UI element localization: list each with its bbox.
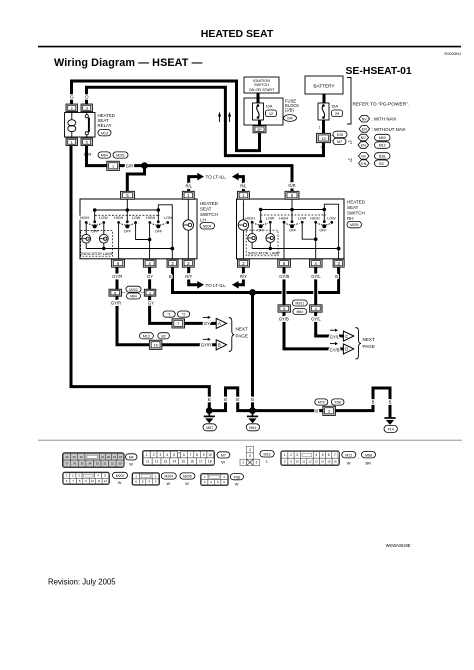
connector label M4: [126, 454, 138, 467]
svg-text:11: 11: [97, 479, 100, 483]
svg-text:HIGH: HIGH: [80, 216, 90, 220]
RH feed-to-pin3 loop: [324, 204, 338, 248]
svg-text:M12: M12: [379, 144, 386, 148]
RH pin 6 (bottom): [278, 259, 291, 267]
brace next page A/B: [229, 318, 248, 352]
junction node ground 2: [249, 407, 256, 414]
svg-text:14: 14: [173, 459, 177, 463]
svg-text:*2: *2: [348, 158, 353, 163]
wire color label B on F14 right leg: [389, 400, 392, 405]
svg-text:A: A: [218, 321, 221, 326]
svg-text:NV: NV: [361, 155, 367, 159]
off-page arrow B: [216, 340, 226, 350]
svg-text:B: B: [208, 397, 211, 402]
svg-text:REFER TO “PG-POWER”.: REFER TO “PG-POWER”.: [353, 102, 410, 108]
svg-text:BATTERY: BATTERY: [313, 83, 335, 88]
LH indicator lamp 2: [99, 224, 108, 250]
fuse 15A: [318, 103, 343, 120]
wire color label GY/L before arrow C: [330, 335, 340, 340]
svg-text:22: 22: [80, 455, 84, 459]
svg-text:W: W: [235, 482, 239, 487]
direction arrow above GY: [203, 316, 211, 319]
svg-text:GY/B: GY/B: [279, 274, 289, 279]
svg-text:INDICATOR LAMP: INDICATOR LAMP: [248, 252, 280, 256]
svg-text:10: 10: [91, 479, 95, 483]
svg-text:NEXT: NEXT: [363, 337, 375, 342]
svg-text:W: W: [347, 461, 351, 466]
wire color label GY/L below connector 4: [311, 317, 321, 322]
svg-text:14: 14: [321, 460, 325, 464]
LH indicator lamp dashed box: [81, 231, 114, 257]
svg-text:13: 13: [315, 460, 319, 464]
inline connector 7: [172, 319, 185, 328]
svg-text:2P: 2P: [257, 128, 262, 132]
svg-text:M7: M7: [337, 140, 342, 144]
RH internal feed bus: [259, 199, 326, 211]
svg-text:: WITH NAVI: : WITH NAVI: [372, 117, 397, 122]
svg-text:*1: *1: [348, 140, 353, 145]
svg-text:NV: NV: [362, 117, 368, 121]
svg-text:EN: EN: [361, 162, 366, 166]
svg-text:O: O: [85, 95, 89, 100]
legend *1: [348, 134, 390, 148]
svg-text:LH: LH: [200, 217, 206, 222]
svg-text:29: 29: [335, 111, 339, 116]
svg-text:B: B: [251, 397, 254, 402]
connector detail M202: [63, 472, 110, 484]
inline connector 1 (M64-M201): [98, 152, 128, 171]
wire GY/R from LH pin6 down to connector 16: [117, 267, 216, 345]
svg-text:ON OR START: ON OR START: [249, 88, 275, 92]
LH switch section 3: [146, 210, 173, 234]
heated seat switch LH box: [80, 199, 219, 259]
svg-text::: :: [371, 136, 372, 140]
svg-text:LOW: LOW: [164, 216, 173, 220]
svg-text:EN: EN: [362, 128, 367, 132]
svg-text:12: 12: [269, 111, 273, 116]
arrow up on G wire: [228, 112, 231, 122]
svg-text:3: 3: [249, 448, 251, 452]
svg-text:INDICATOR LAMP: INDICATOR LAMP: [81, 252, 113, 256]
svg-text:*1: *1: [167, 313, 170, 317]
svg-text:M201: M201: [116, 154, 125, 158]
svg-text:BR: BR: [366, 461, 372, 466]
svg-text:NV: NV: [361, 136, 367, 140]
LH pin 6 (bottom): [112, 259, 125, 267]
svg-text:R/Y: R/Y: [185, 274, 192, 279]
svg-text:B: B: [224, 397, 227, 402]
svg-text:23: 23: [73, 455, 77, 459]
svg-text:B: B: [169, 274, 172, 279]
svg-text:D: D: [345, 347, 348, 352]
svg-text:GY/R: GY/R: [111, 301, 121, 306]
svg-text:PAGE: PAGE: [236, 334, 248, 339]
svg-text:M64: M64: [130, 295, 137, 299]
LH pin 5 (top): [121, 191, 135, 199]
wire battery to fuse: [323, 94, 326, 104]
wire GY from LH pin4 down to connector 7: [150, 267, 217, 323]
svg-text:12: 12: [155, 459, 159, 463]
heated seat relay M13: [65, 104, 115, 146]
svg-text:B2: B2: [379, 162, 383, 166]
svg-text:2: 2: [153, 453, 155, 457]
wire color label B on relay ground leg: [208, 397, 211, 402]
wire G/R junction to RH switch pin 5: [145, 166, 293, 192]
connector ovals M202 / M64: [122, 286, 145, 299]
svg-text:W: W: [129, 461, 133, 466]
svg-text:M12: M12: [143, 334, 150, 338]
junction node ground 1: [206, 407, 213, 414]
svg-text:HIGH: HIGH: [114, 216, 124, 220]
LH pin 3 (bottom): [167, 259, 178, 267]
node G (ignition feed): [258, 137, 262, 142]
inline connector 16: [149, 340, 162, 349]
wire B from LH pin3 to ground rail: [173, 267, 252, 292]
svg-text:WKWA0619E: WKWA0619E: [386, 543, 411, 548]
RH pin 2 (bottom): [237, 259, 249, 267]
wire B rail to RH pin3 with hops: [254, 267, 338, 292]
LH mechanical link (dashed): [95, 214, 160, 216]
heated seat switch RH box: [237, 199, 366, 259]
svg-text:SWITCH: SWITCH: [347, 211, 365, 216]
wire color label B on bridge left leg: [224, 397, 227, 402]
RH pin 1 (top): [237, 191, 249, 199]
svg-text:RH: RH: [347, 216, 354, 221]
wire color label R/L above LH pin 1: [186, 184, 193, 189]
label TO LT-ILL top: [206, 175, 227, 180]
svg-text:*2: *2: [182, 313, 185, 317]
arrow up on O wire: [218, 112, 221, 122]
wire color label GY/R below LH pin 6: [112, 274, 122, 279]
svg-text:9: 9: [203, 453, 205, 457]
connector detail M4 (fuse block): [63, 453, 125, 468]
svg-text:B: B: [372, 400, 375, 405]
svg-text:GY/R: GY/R: [201, 342, 211, 347]
separator line above connector strip: [38, 439, 462, 441]
svg-text:M205: M205: [183, 475, 192, 479]
RH wire HIGH2 to pin 6: [283, 224, 285, 260]
svg-text:,: ,: [177, 476, 178, 481]
svg-text:15: 15: [181, 459, 185, 463]
connector detail M12/M68: [281, 451, 340, 466]
connector labels M204 , M205: [161, 473, 195, 486]
direction arrow above GY/L: [330, 329, 338, 332]
header rule: [38, 46, 461, 48]
wire color label G/R above RH pin 5: [288, 183, 295, 188]
svg-text:W: W: [118, 480, 122, 485]
wire R/L from RH pin1 to LT-ILL arrow: [232, 173, 244, 192]
svg-text:GY: GY: [148, 301, 154, 306]
brace next page C/D: [356, 328, 375, 360]
wire GY/B from RH pin6 down to arrow D: [284, 267, 344, 349]
LH wire LOW2+HIGH3 to pin 4: [136, 224, 152, 259]
svg-text:OFF: OFF: [155, 230, 163, 234]
label TO LT-ILL bottom: [206, 283, 227, 288]
svg-text:37: 37: [66, 461, 70, 465]
wire R/Y from RH pin2 to LT-ILL arrow bottom: [232, 267, 244, 288]
connector ovals M201 / M64: [292, 300, 307, 315]
svg-text:35: 35: [81, 461, 85, 465]
svg-text:M204: M204: [165, 475, 174, 479]
svg-text:LOW: LOW: [266, 216, 275, 220]
svg-text:15A: 15A: [331, 104, 338, 109]
svg-text:M64: M64: [296, 310, 303, 314]
svg-text:B: B: [335, 274, 338, 279]
svg-text:16: 16: [190, 459, 194, 463]
direction arrow above GY/B: [330, 342, 338, 345]
svg-text:E0003NJ: E0003NJ: [445, 51, 461, 56]
svg-text:32: 32: [103, 461, 107, 465]
svg-text:M202: M202: [116, 474, 125, 478]
direction arrow above GY/R: [203, 338, 211, 341]
svg-text:1: 1: [242, 461, 244, 465]
svg-text:OFF: OFF: [91, 230, 99, 234]
svg-text:NEXT: NEXT: [236, 327, 248, 332]
svg-text:24: 24: [65, 455, 69, 459]
junction node on G/R wire: [141, 162, 148, 169]
wire R/Y from LH pin2 to LT-ILL arrow bottom: [189, 267, 204, 288]
svg-text:LOW: LOW: [132, 216, 141, 220]
ground symbol M61: [246, 411, 259, 431]
svg-text:18: 18: [208, 459, 212, 463]
svg-text:13: 13: [164, 459, 168, 463]
svg-text:16: 16: [153, 343, 158, 348]
svg-text:G/R: G/R: [288, 183, 295, 188]
svg-text:3: 3: [296, 453, 298, 457]
svg-text:SEAT: SEAT: [347, 205, 359, 210]
svg-text:B38: B38: [379, 155, 385, 159]
svg-text:7: 7: [334, 453, 336, 457]
svg-text:12: 12: [308, 460, 312, 464]
svg-text:7: 7: [190, 453, 192, 457]
connector detail M7: [143, 451, 215, 466]
svg-text:30: 30: [118, 461, 122, 465]
svg-text:SWITCH: SWITCH: [254, 83, 269, 87]
svg-text:W: W: [185, 481, 189, 486]
node B below relay pin 1: [70, 152, 73, 157]
RH pin 5 (top): [285, 191, 299, 199]
wire R/L from LH pin1 to LT-ILL arrow: [189, 173, 204, 192]
off-page arrow C: [343, 331, 353, 341]
svg-text:M13: M13: [264, 452, 271, 456]
svg-text:10: 10: [296, 460, 300, 464]
wire color label R/Y below LH pin 2: [185, 274, 192, 279]
svg-text:M13: M13: [101, 131, 108, 135]
svg-text:GY/L: GY/L: [330, 335, 340, 340]
svg-text:3: 3: [160, 453, 162, 457]
svg-text:HIGH: HIGH: [279, 216, 289, 220]
section title: [54, 51, 461, 69]
svg-text:R/L: R/L: [240, 184, 247, 189]
wire GY/L from RH pin4 down to arrow C: [316, 267, 344, 336]
svg-text:4: 4: [166, 453, 168, 457]
wire G : 2P down, left, up to relay pin 2: [72, 81, 260, 151]
svg-text:HIGH: HIGH: [310, 216, 320, 220]
RH lamp ground bus to pin 3: [252, 247, 340, 260]
wire color label B below RH pin 3: [335, 274, 338, 279]
svg-text::: :: [371, 144, 372, 148]
svg-text:18: 18: [119, 455, 123, 459]
svg-text:: WITHOUT NAVI: : WITHOUT NAVI: [372, 127, 406, 132]
svg-text:1: 1: [284, 453, 286, 457]
RH switch section 2: [279, 210, 307, 233]
fuse block (J/B) box: [244, 98, 299, 125]
svg-text:HIGH: HIGH: [245, 216, 255, 220]
wire G/R junction to LH switch pin 5: [127, 166, 144, 192]
wire ignition to fuse block: [257, 93, 260, 104]
inline connector 2 (M202-M64): [144, 289, 156, 296]
svg-text:OFF: OFF: [124, 230, 132, 234]
svg-text:5: 5: [283, 307, 285, 311]
svg-text:(J/B): (J/B): [285, 108, 294, 113]
wire B to connector 2 (M70-F58): [253, 409, 323, 412]
fuse 10A: [253, 103, 277, 120]
svg-text:B: B: [315, 409, 318, 414]
svg-text:GY/B: GY/B: [279, 317, 289, 322]
connector labels M12 , M68: [342, 452, 376, 466]
diagram id SE-HSEAT-01: [346, 66, 412, 77]
svg-text:B: B: [218, 343, 221, 348]
wire color label GY/B below connector 5: [279, 317, 289, 322]
svg-text:HEATED: HEATED: [200, 201, 219, 206]
svg-text:M70: M70: [318, 401, 325, 405]
svg-text:M202: M202: [129, 288, 138, 292]
svg-text:8: 8: [196, 453, 198, 457]
connector detail M13 (relay socket): [240, 446, 260, 465]
wire color label GY below LH pin 4: [147, 274, 153, 279]
svg-text:6: 6: [183, 453, 185, 457]
LH internal feed bus: [93, 199, 160, 212]
svg-text:F58: F58: [234, 475, 240, 479]
svg-text:M204: M204: [203, 224, 212, 228]
svg-text:F14: F14: [388, 428, 394, 432]
svg-text:5: 5: [322, 453, 324, 457]
connector 15 with E28/M7: [317, 120, 348, 145]
svg-text:W: W: [166, 481, 170, 486]
LH switch section 1: [80, 210, 108, 234]
LH pin 2 (bottom): [182, 259, 194, 267]
wire color label GY/R before arrow B: [201, 342, 211, 347]
wire B from connector 2 over to ground F14: [335, 388, 390, 417]
connector label M13: [260, 451, 274, 464]
svg-text:1: 1: [146, 453, 148, 457]
LH lamp ground bus to pin 3: [86, 247, 174, 260]
svg-text:OFF: OFF: [319, 228, 327, 232]
svg-text:G/R: G/R: [126, 163, 133, 168]
inline connector 5 (M201-M64): [278, 305, 291, 312]
svg-text:SEAT: SEAT: [200, 206, 212, 211]
wire O : conn15 down, left, up to relay pin 3: [87, 87, 324, 155]
svg-text:LOW: LOW: [99, 216, 108, 220]
wire color label G/R after connector 1: [126, 163, 133, 168]
connector label M7: [217, 452, 230, 465]
wire color label B above ground 2: [251, 397, 254, 402]
revision note: [48, 578, 116, 587]
svg-text:M4: M4: [129, 456, 134, 460]
svg-text:LOW: LOW: [298, 216, 307, 220]
svg-text:OFF: OFF: [289, 228, 297, 232]
svg-text:GY: GY: [147, 274, 153, 279]
svg-text:19: 19: [113, 455, 117, 459]
svg-text:PAGE: PAGE: [363, 344, 375, 349]
svg-text:GY: GY: [204, 321, 210, 326]
svg-text:GY/R: GY/R: [112, 274, 122, 279]
svg-text:M4: M4: [287, 117, 292, 121]
svg-text:HEATED: HEATED: [347, 200, 366, 205]
off-page arrow A: [216, 318, 226, 328]
svg-text:M201: M201: [296, 302, 305, 306]
LH pin 1 (top): [182, 191, 194, 199]
ignition switch box: [244, 77, 279, 93]
connector 2P below fuse block: [253, 120, 266, 133]
wire color label GY before arrow A: [204, 321, 210, 326]
LH indicator lamp 1: [82, 224, 91, 249]
svg-text:L: L: [266, 458, 269, 463]
LH illumination lamp: [183, 199, 193, 259]
svg-text:20: 20: [107, 455, 111, 459]
LH switch section 2: [114, 210, 141, 234]
svg-text:17: 17: [199, 459, 203, 463]
junction node B rail: [249, 289, 256, 296]
svg-text:SWITCH: SWITCH: [200, 212, 218, 217]
connector label M202: [113, 472, 128, 485]
svg-text:21: 21: [101, 455, 105, 459]
svg-text:B: B: [236, 397, 239, 402]
svg-text:34: 34: [88, 461, 92, 465]
legend NV with navi: [359, 115, 396, 122]
legend *2: [348, 153, 390, 167]
svg-text:2: 2: [290, 453, 292, 457]
RH illumination lamp: [238, 200, 248, 259]
footer code: [386, 543, 411, 548]
connector label F58: [230, 474, 243, 487]
svg-text:1: 1: [319, 126, 321, 130]
svg-text:6: 6: [328, 453, 330, 457]
wire color label GY/L below RH pin 4: [311, 274, 321, 279]
LH pin 4 (bottom): [143, 259, 156, 267]
wire B from relay pin1 down and across: [71, 146, 209, 409]
ground symbol F14: [384, 418, 397, 432]
svg-text:B: B: [389, 400, 392, 405]
svg-text:11: 11: [302, 460, 305, 464]
RH pin 3 (bottom): [333, 259, 344, 267]
svg-text:11: 11: [146, 459, 150, 463]
RH mechanical link (dashed): [261, 214, 327, 216]
svg-text:5: 5: [249, 454, 251, 458]
svg-text:E28: E28: [337, 133, 343, 137]
svg-text:LOW: LOW: [327, 216, 336, 220]
wire B from rail junction down to ground 2: [251, 294, 254, 409]
svg-text:36: 36: [73, 461, 77, 465]
inline connector 4 (M201-M64): [310, 305, 323, 312]
wire color label GY/R below connector 6: [111, 301, 121, 306]
wire color label GY/B before arrow D: [329, 347, 339, 352]
svg-text:TO LT-ILL: TO LT-ILL: [206, 175, 227, 180]
svg-text:M68: M68: [365, 453, 372, 457]
svg-text:10: 10: [208, 453, 212, 457]
wire B bridge between ground junctions: [209, 388, 252, 411]
svg-text:,: ,: [358, 454, 359, 459]
bracket refer to PG-POWER: [347, 78, 409, 125]
svg-text:Revision: July 2005: Revision: July 2005: [48, 578, 116, 587]
svg-text:B2: B2: [161, 334, 165, 338]
svg-text:SE-HSEAT-01: SE-HSEAT-01: [346, 66, 412, 77]
svg-text:15: 15: [321, 136, 326, 141]
svg-text:5: 5: [173, 453, 175, 457]
LH feed-to-pin3 loop: [158, 205, 172, 249]
RH wire LOW2+HIGH3 to pin 4: [302, 224, 317, 260]
svg-text:HIGH: HIGH: [146, 216, 156, 220]
